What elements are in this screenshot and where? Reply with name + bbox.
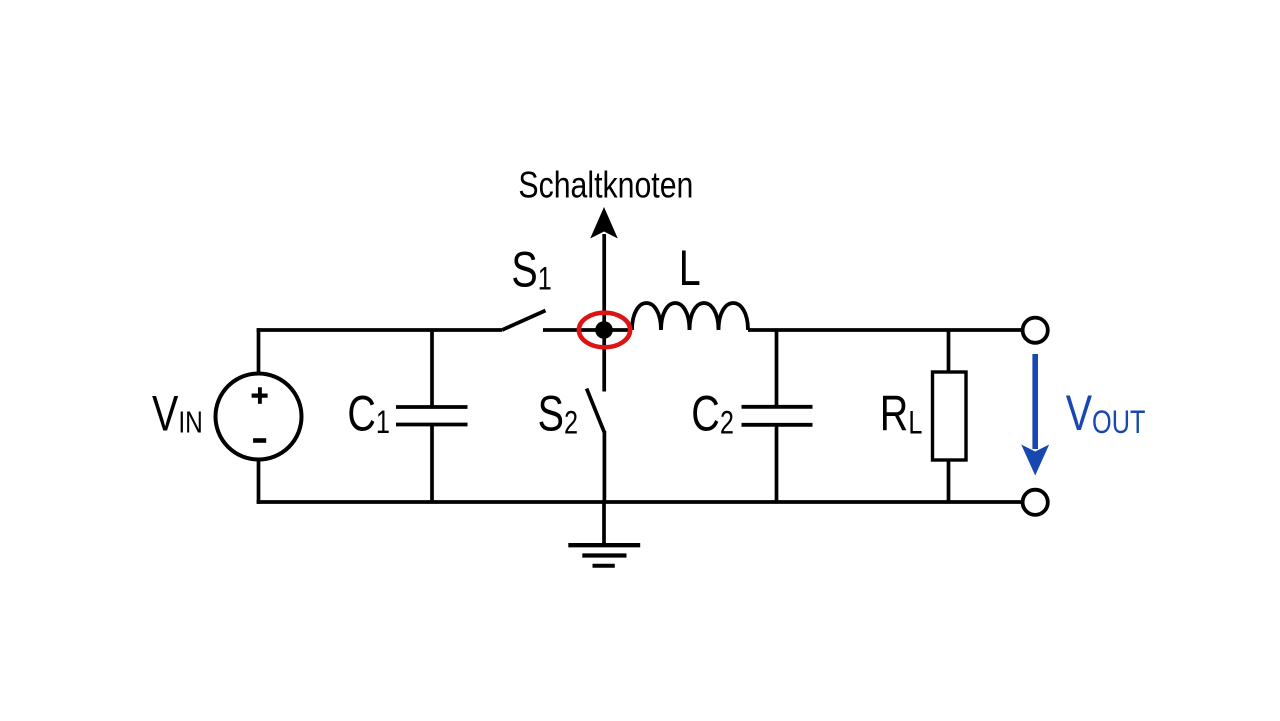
switch S2 blade bbox=[587, 389, 605, 433]
wire left rail lower bbox=[257, 460, 261, 504]
capacitor C1 plate upper bbox=[396, 405, 468, 409]
arrowhead Schaltknoten pointer bbox=[590, 207, 618, 239]
inductor L coil bbox=[632, 303, 748, 330]
wire top-left horizontal bbox=[257, 328, 502, 332]
capacitor C2 plate lower bbox=[742, 423, 813, 427]
VIN minus sign bbox=[253, 438, 266, 443]
wire inductor to top-right bbox=[748, 328, 1022, 332]
terminal bottom-right bbox=[1023, 490, 1048, 515]
ground bar 1 bbox=[568, 543, 640, 547]
blue output arrowhead bbox=[1021, 445, 1049, 476]
switch S1 blade bbox=[502, 311, 546, 331]
wire bottom rail bbox=[257, 500, 1022, 504]
wire S1 right contact to node bbox=[543, 328, 632, 332]
terminal top-right bbox=[1023, 318, 1048, 343]
svg-text:Schaltknoten: Schaltknoten bbox=[518, 165, 693, 207]
blue output arrow shaft bbox=[1032, 354, 1038, 449]
svg-text:S1: S1 bbox=[511, 241, 551, 298]
svg-text:VOUT: VOUT bbox=[1066, 385, 1146, 442]
capacitor C1 top lead bbox=[430, 330, 434, 406]
capacitor C2 top lead bbox=[775, 330, 779, 405]
voltage source VIN circle bbox=[216, 374, 302, 460]
resistor RL bottom lead bbox=[947, 460, 951, 502]
capacitor C2 plate upper bbox=[742, 405, 813, 409]
wire S2 to bottom rail bbox=[603, 431, 607, 502]
VIN plus sign bbox=[252, 387, 268, 404]
ground bar 2 bbox=[582, 553, 626, 557]
red highlight ellipse around node bbox=[579, 313, 630, 348]
svg-text:C1: C1 bbox=[347, 385, 390, 442]
wire left rail upper bbox=[257, 328, 261, 374]
svg-text:L: L bbox=[679, 240, 701, 297]
capacitor C1 plate lower bbox=[396, 423, 468, 427]
svg-text:VIN: VIN bbox=[152, 385, 203, 442]
node dot (Schaltknoten) bbox=[595, 321, 613, 339]
svg-text:S2: S2 bbox=[538, 385, 578, 442]
wire switch-node vertical (arrow shaft + S2 upper contact) bbox=[602, 234, 606, 392]
svg-text:C2: C2 bbox=[691, 385, 734, 442]
resistor RL body bbox=[933, 372, 967, 460]
svg-text:RL: RL bbox=[880, 385, 923, 442]
capacitor C1 bottom lead bbox=[430, 426, 434, 502]
wire ground stub bbox=[602, 502, 606, 545]
ground bar 3 bbox=[593, 564, 615, 568]
capacitor C2 bottom lead bbox=[775, 426, 779, 502]
resistor RL top lead bbox=[947, 330, 951, 372]
